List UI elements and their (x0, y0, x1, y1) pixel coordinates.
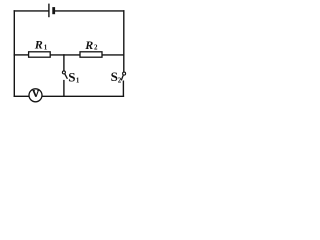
switch S1 blade (65, 74, 68, 79)
svg-text:1: 1 (44, 44, 48, 52)
svg-text:S: S (68, 70, 75, 85)
wire top-right segment (55, 10, 124, 12)
wire bottom left of voltmeter (14, 95, 28, 97)
wire S1 branch lower (63, 81, 65, 97)
wire top-left segment (14, 10, 48, 12)
svg-text:2: 2 (94, 44, 98, 52)
wire bottom right of voltmeter (42, 95, 123, 97)
wire right vertical lower (122, 81, 124, 96)
resistor R2 (80, 52, 102, 57)
wire R2 to right (102, 54, 124, 56)
voltmeter V label (33, 91, 39, 97)
svg-text:2: 2 (118, 76, 122, 84)
battery long plate (48, 4, 50, 18)
wire S1 branch upper (63, 55, 65, 71)
switch S2 pivot circle (123, 72, 126, 75)
switch S2 blade (121, 75, 123, 80)
battery short thick plate (52, 7, 55, 14)
switch S1 pivot circle (62, 71, 65, 74)
svg-text:R: R (84, 38, 93, 52)
wire R1 to R2 (50, 54, 80, 56)
svg-text:S: S (111, 69, 118, 84)
resistor R1 (29, 52, 51, 57)
wire middle left to R1 (14, 54, 28, 56)
wire right vertical upper (123, 11, 125, 72)
svg-text:1: 1 (76, 76, 80, 84)
voltmeter V circle (29, 89, 42, 102)
wire left vertical (13, 11, 15, 96)
svg-text:R: R (34, 38, 43, 52)
